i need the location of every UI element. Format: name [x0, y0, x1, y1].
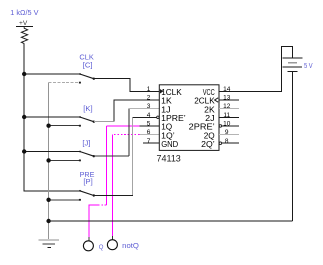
svg-text:5 V: 5 V — [304, 61, 313, 70]
wire battery negative down to ground rail — [292, 72, 294, 221]
switch J pole dot — [93, 155, 95, 157]
wire switch CLK lower throw (gray dashed) — [49, 82, 80, 84]
svg-text:notQ: notQ — [122, 241, 139, 250]
svg-text:8: 8 — [225, 138, 229, 145]
probe 2 circle (notQ) — [107, 240, 117, 250]
probe 1 pin stub — [88, 237, 90, 241]
wire pin 3 stub (light gray) — [129, 108, 160, 110]
wire pin 14 VCC to battery positive — [219, 46, 293, 91]
junction dot rail-CLK — [22, 72, 26, 76]
switch CLK upper contact nub — [79, 73, 81, 75]
wire pin 9 stub (gray) — [219, 134, 239, 136]
wire magenta Q: jog to probe 1 — [89, 205, 98, 238]
wire pin 12 stub (gray) — [219, 108, 239, 110]
bubble pin 10 2PRE' — [219, 125, 222, 128]
switch J upper contact nub — [79, 151, 81, 153]
wire pin 13 stub — [219, 99, 239, 101]
wire magenta notQ: dashed horizontal run from pin 6 — [112, 134, 139, 136]
svg-text:11: 11 — [223, 112, 230, 119]
ground bar 3 — [47, 247, 51, 249]
bubble pin 4 1PRE' — [157, 116, 160, 119]
probe 1 circle (Q) — [83, 241, 93, 251]
wire pin 11 stub — [219, 116, 239, 118]
junction dot column-ground rail — [46, 219, 50, 223]
wire K riser to pin 2 — [114, 100, 159, 122]
switch PRE upper contact nub — [79, 190, 81, 192]
junction dot rail-K — [22, 115, 26, 119]
IC U1 74113 body — [159, 85, 219, 151]
wire K pole horizontal (gray) — [94, 121, 114, 123]
wire pin 7 stub — [143, 142, 160, 144]
wire switch CLK upper contact from rail — [24, 73, 80, 75]
switch CLK lower contact tip — [79, 82, 81, 84]
wire pin 6 stub (gray) — [140, 134, 160, 136]
wire PRE riser (gray) — [131, 118, 133, 195]
switch J lower contact tip — [79, 160, 81, 162]
svg-text:3: 3 — [147, 103, 151, 110]
wire pin 8 stub — [222, 142, 240, 144]
wire magenta Q: pin 5 horizontal run — [106, 125, 140, 127]
svg-text:10: 10 — [223, 121, 231, 128]
switch CLK blade — [80, 74, 94, 79]
svg-text:[P]: [P] — [83, 177, 92, 186]
switch K blade — [80, 117, 94, 122]
svg-text:12: 12 — [223, 103, 231, 110]
wire ground rail to battery negative — [49, 220, 293, 222]
wire left supply rail (resistor to PRE switch) — [24, 44, 80, 191]
wire pin 5 stub — [140, 125, 160, 127]
switch CLK pole dot — [93, 78, 95, 80]
ground bar 1 — [39, 239, 59, 241]
junction dot column-K — [46, 124, 50, 128]
probe 2 pin stub — [111, 236, 113, 240]
battery V1 plate 3 (negative, short) — [287, 71, 297, 73]
svg-text:1: 1 — [147, 86, 151, 93]
wire pin 4 stub — [132, 116, 156, 118]
svg-text:6: 6 — [147, 129, 151, 136]
wire switch K lower throw — [49, 125, 80, 127]
svg-text:[C]: [C] — [83, 60, 93, 69]
junction dot column-J — [46, 158, 50, 162]
wire switch K upper contact from rail — [24, 116, 80, 118]
wire magenta notQ: vertical run to probe 2 — [111, 135, 113, 237]
wire switch J upper contact from rail — [24, 151, 80, 153]
wire switch J lower throw — [49, 159, 80, 161]
switch K upper contact nub — [79, 116, 81, 118]
battery V1 inner gray plate — [288, 62, 297, 64]
svg-text:[K]: [K] — [83, 104, 92, 113]
svg-text:[J]: [J] — [82, 138, 90, 147]
svg-text:9: 9 — [225, 129, 229, 136]
wire gray ground column — [48, 83, 50, 239]
switch PRE blade — [80, 191, 94, 196]
resistor R1 zigzag — [21, 27, 27, 43]
clock triangle pin 1 — [160, 89, 164, 94]
switch J blade — [80, 152, 94, 157]
wire J pole horizontal — [94, 155, 129, 157]
battery V1 plate 2 (long) — [282, 66, 302, 68]
switch K pole dot — [93, 121, 95, 123]
ground bar 2 — [43, 243, 56, 245]
wire magenta Q: dashed jog segment — [97, 204, 106, 206]
switch PRE lower contact tip — [79, 199, 81, 201]
junction dot column-PRE — [46, 198, 50, 202]
wire switch PRE lower throw — [49, 199, 80, 201]
svg-text:74113: 74113 — [157, 153, 181, 163]
svg-text:2Q’: 2Q’ — [201, 139, 215, 149]
svg-text:14: 14 — [223, 86, 231, 93]
junction dot rail-J — [22, 149, 26, 153]
switch PRE pole dot — [93, 194, 95, 196]
wire CLK pole to pin 1 — [94, 79, 160, 92]
wire J riser — [128, 109, 130, 157]
battery V1 plate 1 (positive, long) — [282, 57, 302, 59]
wire PRE pole horizontal — [94, 195, 133, 197]
svg-text:4: 4 — [147, 112, 151, 119]
switch K lower contact tip — [79, 125, 81, 127]
bubble pin 8 2Q' — [219, 142, 222, 145]
svg-text:2: 2 — [147, 95, 151, 102]
power symbol +V bar — [16, 26, 33, 28]
svg-text:GND: GND — [161, 139, 178, 149]
svg-text:5: 5 — [147, 121, 151, 128]
svg-text:7: 7 — [147, 138, 151, 145]
svg-text:13: 13 — [223, 95, 231, 102]
clock arrow pin 13 — [215, 98, 219, 102]
wire pin 10 stub — [222, 125, 240, 127]
wire magenta Q: vertical run — [105, 126, 107, 205]
svg-text:Q: Q — [99, 245, 104, 251]
svg-text:1 kΩ/5 V: 1 kΩ/5 V — [10, 8, 38, 17]
svg-text:+V: +V — [19, 20, 28, 27]
